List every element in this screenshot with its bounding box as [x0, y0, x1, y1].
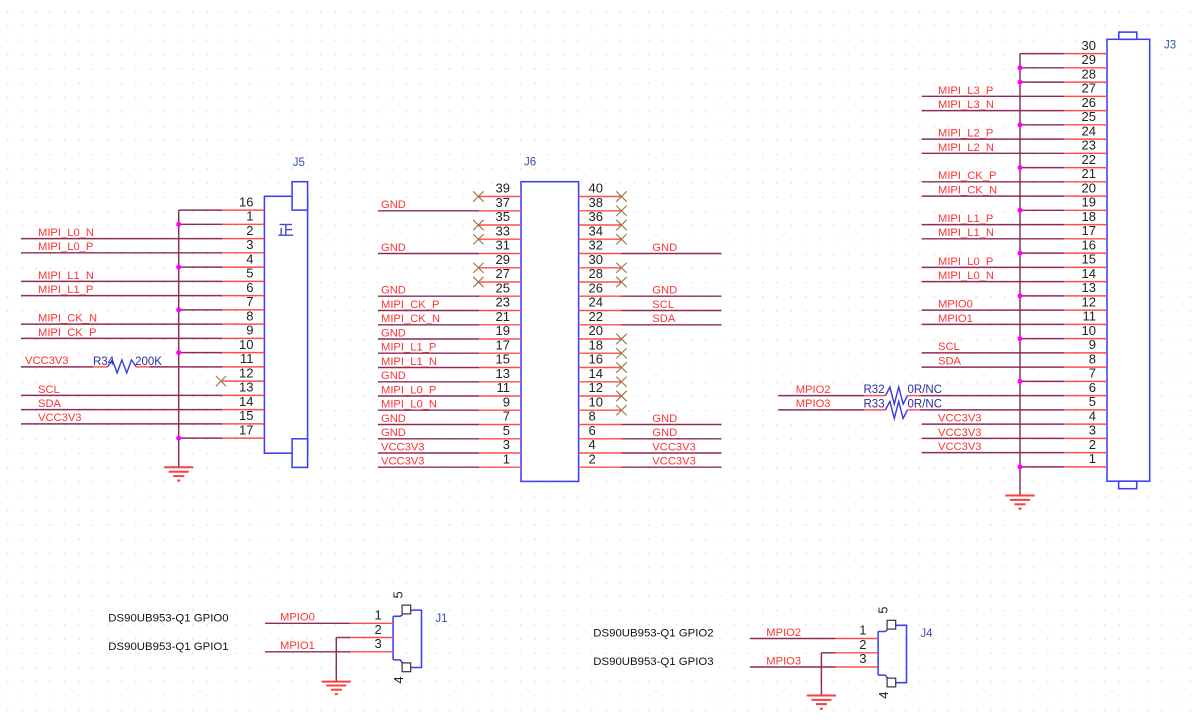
junction J5 ground bus pin 17 — [176, 436, 181, 441]
wire J5 pin 1 to ground bus — [179, 223, 265, 225]
svg-text:7: 7 — [246, 294, 253, 309]
wire J6 pin 1 VCC3V3 — [378, 466, 521, 468]
svg-text:12: 12 — [589, 380, 603, 395]
wire MPIO2 to J4 pin 1 — [750, 638, 878, 640]
junction J3 ground bus pin 25 — [1018, 122, 1023, 127]
svg-text:1: 1 — [859, 623, 866, 638]
svg-text:R34: R34 — [93, 356, 115, 368]
svg-text:MPIO1: MPIO1 — [280, 640, 315, 652]
junction J3 ground bus pin 29 — [1018, 65, 1023, 70]
svg-text:28: 28 — [1082, 66, 1096, 81]
wire J6 pin 11 MIPI_L0_P — [378, 395, 521, 397]
svg-text:MIPI_L0_P: MIPI_L0_P — [938, 256, 993, 268]
svg-text:38: 38 — [589, 195, 603, 210]
svg-text:MIPI_L0_N: MIPI_L0_N — [38, 227, 94, 239]
svg-text:MPIO0: MPIO0 — [280, 612, 315, 624]
no-connect stub J6 pin 29 — [473, 263, 521, 273]
no-connect stub J6 pin 34 — [579, 234, 627, 244]
connector J3 top tab — [1119, 32, 1137, 39]
connector J3 bottom tab — [1119, 481, 1137, 489]
wire J5 pin 6 — [21, 295, 264, 297]
svg-text:31: 31 — [496, 238, 510, 253]
connector J4 pin 4 pad square — [887, 678, 896, 687]
no-connect stub J6 pin 27 — [473, 277, 521, 287]
svg-text:26: 26 — [589, 280, 603, 295]
J5 polarity mark 正 — [278, 225, 293, 236]
svg-text:8: 8 — [1089, 351, 1096, 366]
svg-text:J6: J6 — [524, 156, 536, 168]
svg-text:22: 22 — [1082, 152, 1096, 167]
svg-text:VCC3V3: VCC3V3 — [38, 412, 82, 424]
svg-text:4: 4 — [391, 676, 406, 683]
svg-text:40: 40 — [589, 181, 603, 196]
svg-text:MIPI_CK_P: MIPI_CK_P — [381, 299, 439, 311]
junction J3 ground bus pin 7 — [1018, 379, 1023, 384]
svg-text:26: 26 — [1082, 95, 1096, 110]
svg-text:23: 23 — [496, 295, 510, 310]
svg-text:27: 27 — [1082, 81, 1096, 96]
wire J3 pin 7 to ground bus — [1020, 380, 1107, 382]
svg-text:2: 2 — [589, 451, 596, 466]
ground symbol (J4) — [807, 696, 836, 709]
svg-text:5: 5 — [246, 266, 253, 281]
wire J5 ground bus vertical — [178, 210, 180, 467]
wire J3 pin 11 MPIO1 — [922, 323, 1107, 325]
wire J3 pin 21 MIPI_CK_P — [922, 181, 1107, 183]
svg-text:0R/NC: 0R/NC — [908, 399, 943, 411]
svg-text:6: 6 — [1089, 380, 1096, 395]
svg-text:28: 28 — [589, 266, 603, 281]
wire J1 ground riser — [335, 638, 337, 682]
wire J3 pin 17 MIPI_L1_N — [922, 238, 1107, 240]
connector J5 body — [264, 196, 307, 453]
svg-text:MPIO3: MPIO3 — [796, 398, 831, 410]
svg-text:19: 19 — [496, 323, 510, 338]
wire J3 pin 9 SCL — [922, 352, 1107, 354]
svg-text:SDA: SDA — [652, 313, 676, 325]
svg-text:MIPI_CK_N: MIPI_CK_N — [381, 313, 440, 325]
svg-text:VCC3V3: VCC3V3 — [652, 456, 696, 468]
svg-text:39: 39 — [496, 181, 510, 196]
wire J3 pin 24 MIPI_L2_P — [922, 138, 1107, 140]
wire J6 pin 9 MIPI_L0_N — [378, 409, 521, 411]
no-connect stub J6 pin 12 — [579, 391, 627, 401]
no-connect stub J6 pin 28 — [579, 277, 627, 287]
wire J3 pin 8 SDA — [922, 366, 1107, 368]
svg-text:MIPI_L1_P: MIPI_L1_P — [38, 284, 93, 296]
svg-text:VCC3V3: VCC3V3 — [938, 441, 982, 453]
svg-text:MPIO2: MPIO2 — [796, 384, 831, 396]
svg-text:DS90UB953-Q1 GPIO0: DS90UB953-Q1 GPIO0 — [108, 613, 228, 625]
svg-text:35: 35 — [496, 209, 510, 224]
wire J3 pin 28 to ground bus — [1020, 81, 1107, 83]
svg-text:16: 16 — [1082, 237, 1096, 252]
svg-text:10: 10 — [589, 394, 603, 409]
svg-text:2: 2 — [859, 637, 866, 652]
svg-text:MIPI_L2_P: MIPI_L2_P — [938, 128, 993, 140]
connector J1 pin 5 pad square — [402, 605, 411, 614]
wire J5 pin 5 — [21, 280, 264, 282]
junction J5 ground bus pin 10 — [176, 350, 181, 355]
svg-text:19: 19 — [1082, 195, 1096, 210]
wire J3 pin 15 MIPI_L0_P — [922, 266, 1107, 268]
svg-text:R33: R33 — [864, 399, 885, 411]
connector J5 top mounting tab — [292, 182, 308, 210]
wire J3 pin 20 MIPI_CK_N — [922, 195, 1107, 197]
svg-text:29: 29 — [1082, 52, 1096, 67]
svg-text:7: 7 — [503, 409, 510, 424]
svg-text:13: 13 — [1082, 280, 1096, 295]
svg-text:15: 15 — [1082, 252, 1096, 267]
svg-text:15: 15 — [496, 352, 510, 367]
svg-text:3: 3 — [374, 636, 381, 651]
svg-text:2: 2 — [246, 223, 253, 238]
svg-text:VCC3V3: VCC3V3 — [381, 456, 425, 468]
svg-text:4: 4 — [1089, 408, 1096, 423]
svg-text:9: 9 — [1089, 337, 1096, 352]
no-connect stub J6 pin 40 — [579, 191, 627, 201]
wire J3 pin 22 to ground bus — [1020, 167, 1107, 169]
svg-text:27: 27 — [496, 266, 510, 281]
svg-text:24: 24 — [589, 295, 603, 310]
junction J3 ground bus pin 16 — [1018, 251, 1023, 256]
svg-text:MPIO3: MPIO3 — [766, 655, 801, 667]
svg-text:20: 20 — [1082, 180, 1096, 195]
wire J3 pin 23 MIPI_L2_N — [922, 152, 1107, 154]
svg-text:VCC3V3: VCC3V3 — [938, 427, 982, 439]
junction J3 ground bus pin 10 — [1018, 336, 1023, 341]
svg-text:9: 9 — [503, 394, 510, 409]
svg-text:30: 30 — [1082, 38, 1096, 53]
svg-text:200K: 200K — [135, 356, 162, 368]
wire J6 pin 6 GND — [579, 438, 722, 440]
svg-text:1: 1 — [246, 209, 253, 224]
no-connect stub J6 pin 14 — [579, 377, 627, 387]
wire J3 pin 6 (R32 to connector) — [920, 395, 1107, 397]
wire J5 pin 8 — [21, 323, 264, 325]
svg-text:MIPI_L0_P: MIPI_L0_P — [381, 384, 436, 396]
svg-text:MIPI_L2_N: MIPI_L2_N — [938, 142, 994, 154]
wire J3 pin 29 to ground bus — [1020, 67, 1107, 69]
svg-text:MIPI_L0_P: MIPI_L0_P — [38, 241, 93, 253]
wire J3 pin 4 VCC3V3 — [922, 423, 1107, 425]
wire MPIO3 to J4 pin 3 — [750, 666, 878, 668]
svg-text:GND: GND — [381, 285, 406, 297]
wire J6 pin 5 GND — [378, 438, 521, 440]
wire J5 pin 7 to ground bus — [179, 309, 265, 311]
svg-text:15: 15 — [239, 408, 253, 423]
wire J3 pin 30 to ground bus — [1020, 53, 1107, 55]
junction J3 ground bus pin 19 — [1018, 208, 1023, 213]
svg-text:3: 3 — [859, 651, 866, 666]
svg-text:GND: GND — [381, 370, 406, 382]
wire MPIO0 to J1 pin 1 — [265, 622, 393, 624]
wire J5 pin 11 (R34 to connector) — [150, 366, 265, 368]
resistor R34 left terminal — [93, 366, 108, 368]
wire J1 pin 2 to ground — [336, 637, 393, 639]
wire J3 pin 12 MPIO0 — [922, 309, 1107, 311]
svg-text:MIPI_CK_N: MIPI_CK_N — [38, 313, 97, 325]
svg-text:DS90UB953-Q1 GPIO3: DS90UB953-Q1 GPIO3 — [593, 656, 713, 668]
svg-text:8: 8 — [589, 409, 596, 424]
junction J5 ground bus pin 4 — [176, 265, 181, 270]
resistor R32 — [886, 387, 908, 404]
wire J3 pin 1 to ground bus — [1020, 466, 1107, 468]
svg-text:22: 22 — [589, 309, 603, 324]
svg-text:J4: J4 — [920, 628, 933, 640]
wire J6 pin 15 MIPI_L1_N — [378, 367, 521, 369]
no-connect stub J6 pin 16 — [579, 362, 627, 372]
svg-text:5: 5 — [1089, 394, 1096, 409]
svg-text:SCL: SCL — [652, 299, 674, 311]
wire J5 pin 11 VCC3V3 (left of R34) — [21, 366, 93, 368]
wire J5 pin 14 — [21, 409, 264, 411]
svg-text:0R/NC: 0R/NC — [908, 384, 943, 396]
svg-text:5: 5 — [390, 591, 405, 598]
wire J5 pin 4 to ground bus — [179, 266, 265, 268]
svg-text:25: 25 — [496, 280, 510, 295]
svg-text:2: 2 — [1089, 437, 1096, 452]
connector J1 pin 4 pad square — [402, 663, 411, 672]
wire J6 pin 25 GND — [378, 295, 521, 297]
wire J5 pin 9 — [21, 337, 264, 339]
wire J5 pin 13 — [21, 394, 264, 396]
svg-text:20: 20 — [589, 323, 603, 338]
wire J3 pin 27 MIPI_L3_P — [922, 95, 1107, 97]
svg-text:11: 11 — [240, 351, 254, 366]
wire J5 pin 10 to ground bus — [179, 352, 265, 354]
svg-text:J5: J5 — [293, 157, 305, 169]
wire J6 pin 32 GND — [579, 253, 722, 255]
svg-text:13: 13 — [496, 366, 510, 381]
junction J5 ground bus pin 7 — [176, 307, 181, 312]
wire J3 ground bus vertical — [1019, 54, 1021, 496]
svg-text:2: 2 — [374, 622, 381, 637]
svg-text:10: 10 — [239, 337, 253, 352]
wire J3 pin 3 VCC3V3 — [922, 437, 1107, 439]
wire J6 pin 23 MIPI_CK_P — [378, 310, 521, 312]
wire J6 pin 7 GND — [378, 424, 521, 426]
svg-text:17: 17 — [239, 422, 253, 437]
svg-text:MIPI_L3_P: MIPI_L3_P — [938, 85, 993, 97]
svg-text:MIPI_CK_P: MIPI_CK_P — [38, 327, 96, 339]
svg-text:GND: GND — [381, 199, 406, 211]
svg-text:1: 1 — [1089, 451, 1096, 466]
svg-text:MIPI_CK_N: MIPI_CK_N — [938, 185, 997, 197]
svg-text:MIPI_L0_N: MIPI_L0_N — [938, 270, 994, 282]
svg-text:MIPI_L1_P: MIPI_L1_P — [938, 213, 993, 225]
wire J6 pin 8 GND — [579, 424, 722, 426]
resistor R32 left terminal — [864, 395, 886, 397]
no-connect stub J6 pin 38 — [579, 206, 627, 216]
wire J6 pin 4 VCC3V3 — [579, 452, 722, 454]
svg-text:6: 6 — [589, 423, 596, 438]
svg-text:MIPI_CK_P: MIPI_CK_P — [938, 170, 996, 182]
svg-text:GND: GND — [381, 327, 406, 339]
svg-text:17: 17 — [496, 337, 510, 352]
no-connect stub J5 pin 12 — [216, 376, 265, 386]
svg-text:24: 24 — [1082, 123, 1096, 138]
wire J6 pin 2 VCC3V3 — [579, 466, 722, 468]
svg-text:7: 7 — [1089, 366, 1096, 381]
wire J6 pin 17 MIPI_L1_P — [378, 352, 521, 354]
svg-text:14: 14 — [589, 366, 603, 381]
svg-text:SDA: SDA — [938, 356, 962, 368]
svg-text:8: 8 — [246, 308, 253, 323]
svg-text:5: 5 — [875, 606, 890, 613]
svg-text:12: 12 — [239, 365, 253, 380]
ground symbol (J1) — [322, 682, 351, 695]
svg-text:12: 12 — [1082, 294, 1096, 309]
svg-text:MIPI_L1_N: MIPI_L1_N — [38, 270, 94, 282]
connector J5 bottom mounting tab — [292, 439, 308, 468]
svg-text:33: 33 — [496, 223, 510, 238]
svg-text:VCC3V3: VCC3V3 — [381, 441, 425, 453]
wire J6 pin 3 VCC3V3 — [378, 452, 521, 454]
wire J4 pin 2 to ground — [821, 652, 878, 654]
svg-text:MIPI_L1_N: MIPI_L1_N — [938, 227, 994, 239]
svg-text:17: 17 — [1082, 223, 1096, 238]
wire J6 pin 22 SDA — [579, 324, 722, 326]
svg-text:MIPI_L0_N: MIPI_L0_N — [381, 399, 437, 411]
wire MPIO1 to J1 pin 3 — [265, 651, 393, 653]
svg-text:MIPI_L3_N: MIPI_L3_N — [938, 99, 994, 111]
wire J5 pin 15 — [21, 423, 264, 425]
svg-text:5: 5 — [503, 423, 510, 438]
no-connect stub J6 pin 20 — [579, 334, 627, 344]
junction J5 ground bus pin 1 — [176, 222, 181, 227]
junction J3 ground bus pin 22 — [1018, 165, 1023, 170]
svg-text:MIPI_L1_P: MIPI_L1_P — [381, 342, 436, 354]
connector J3 body — [1107, 39, 1150, 481]
ground symbol (J3 bus) — [1006, 496, 1035, 509]
resistor R33 right terminal — [908, 409, 921, 411]
svg-text:1: 1 — [374, 608, 381, 623]
svg-text:3: 3 — [246, 237, 253, 252]
svg-text:37: 37 — [496, 195, 510, 210]
wire J6 pin 19 GND — [378, 338, 521, 340]
svg-text:R32: R32 — [864, 384, 885, 396]
svg-text:13: 13 — [239, 380, 253, 395]
svg-text:GND: GND — [652, 427, 677, 439]
wire J6 pin 37 GND — [378, 210, 521, 212]
no-connect stub J6 pin 18 — [579, 348, 627, 358]
junction J3 ground bus pin 1 — [1018, 464, 1023, 469]
no-connect stub J6 pin 39 — [473, 191, 521, 201]
wire J3 pin 18 MIPI_L1_P — [922, 224, 1107, 226]
svg-text:10: 10 — [1082, 323, 1096, 338]
svg-text:GND: GND — [652, 285, 677, 297]
svg-text:GND: GND — [652, 242, 677, 254]
svg-text:29: 29 — [496, 252, 510, 267]
no-connect stub J6 pin 33 — [473, 234, 521, 244]
wire J3 pin 13 to ground bus — [1020, 295, 1107, 297]
wire J5 pin 3 — [21, 252, 264, 254]
svg-text:DS90UB953-Q1 GPIO1: DS90UB953-Q1 GPIO1 — [108, 641, 228, 653]
wire J6 pin 24 SCL — [579, 310, 722, 312]
svg-text:GND: GND — [381, 242, 406, 254]
svg-text:11: 11 — [497, 380, 511, 395]
svg-text:4: 4 — [246, 251, 253, 266]
wire J3 MPIO3 (left of R33) — [778, 409, 864, 411]
wire J6 pin 26 GND — [579, 295, 722, 297]
svg-text:MPIO1: MPIO1 — [938, 313, 973, 325]
svg-text:GND: GND — [381, 413, 406, 425]
svg-text:J3: J3 — [1164, 40, 1176, 52]
svg-text:SCL: SCL — [38, 384, 60, 396]
resistor R33 left terminal — [864, 409, 886, 411]
ground symbol (J5 bus) — [164, 467, 193, 480]
svg-text:VCC3V3: VCC3V3 — [652, 441, 696, 453]
wire J6 pin 21 MIPI_CK_N — [378, 324, 521, 326]
wire J3 MPIO2 (left of R32) — [778, 395, 864, 397]
wire J3 pin 19 to ground bus — [1020, 209, 1107, 211]
svg-text:4: 4 — [589, 437, 596, 452]
svg-text:14: 14 — [1082, 266, 1096, 281]
wire J5 pin 17 to ground bus — [179, 437, 265, 439]
no-connect stub J6 pin 36 — [579, 220, 627, 230]
svg-text:MIPI_L1_N: MIPI_L1_N — [381, 356, 437, 368]
svg-text:16: 16 — [589, 352, 603, 367]
no-connect stub J6 pin 10 — [579, 405, 627, 415]
wire J6 pin 31 GND — [378, 253, 521, 255]
svg-text:DS90UB953-Q1 GPIO2: DS90UB953-Q1 GPIO2 — [593, 627, 713, 639]
svg-text:30: 30 — [589, 252, 603, 267]
junction J3 ground bus pin 13 — [1018, 293, 1023, 298]
svg-text:J1: J1 — [435, 613, 447, 625]
resistor R34 right terminal — [136, 366, 149, 368]
wire J3 pin 25 to ground bus — [1020, 124, 1107, 126]
svg-text:6: 6 — [246, 280, 253, 295]
svg-text:VCC3V3: VCC3V3 — [25, 355, 69, 367]
svg-text:36: 36 — [589, 209, 603, 224]
svg-text:SDA: SDA — [38, 398, 62, 410]
wire J3 pin 14 MIPI_L0_N — [922, 281, 1107, 283]
resistor R32 right terminal — [908, 395, 921, 397]
svg-text:3: 3 — [503, 437, 510, 452]
wire J4 ground riser — [820, 653, 822, 696]
svg-text:18: 18 — [1082, 209, 1096, 224]
wire J5 pin 16 to ground bus — [179, 209, 265, 211]
wire J3 pin 2 VCC3V3 — [922, 452, 1107, 454]
svg-text:1: 1 — [503, 451, 510, 466]
svg-text:GND: GND — [381, 427, 406, 439]
svg-text:GND: GND — [652, 413, 677, 425]
svg-text:9: 9 — [246, 323, 253, 338]
svg-text:18: 18 — [589, 337, 603, 352]
svg-text:3: 3 — [1089, 423, 1096, 438]
junction J3 ground bus pin 28 — [1018, 80, 1023, 85]
wire J3 pin 5 (R33 to connector) — [920, 409, 1107, 411]
svg-text:23: 23 — [1082, 138, 1096, 153]
connector J1 body — [393, 610, 421, 667]
wire J3 pin 10 to ground bus — [1020, 338, 1107, 340]
svg-text:14: 14 — [239, 394, 253, 409]
no-connect stub J6 pin 30 — [579, 263, 627, 273]
wire J3 pin 16 to ground bus — [1020, 252, 1107, 254]
connector J4 body — [878, 625, 906, 682]
svg-text:25: 25 — [1082, 109, 1096, 124]
wire J5 pin 2 — [21, 238, 264, 240]
wire J6 pin 13 GND — [378, 381, 521, 383]
svg-text:21: 21 — [1082, 166, 1096, 181]
svg-text:SCL: SCL — [938, 341, 960, 353]
svg-text:VCC3V3: VCC3V3 — [938, 413, 982, 425]
svg-text:MPIO0: MPIO0 — [938, 299, 973, 311]
connector J6 body — [521, 182, 579, 482]
resistor R33 — [886, 401, 908, 418]
svg-text:16: 16 — [239, 194, 253, 209]
